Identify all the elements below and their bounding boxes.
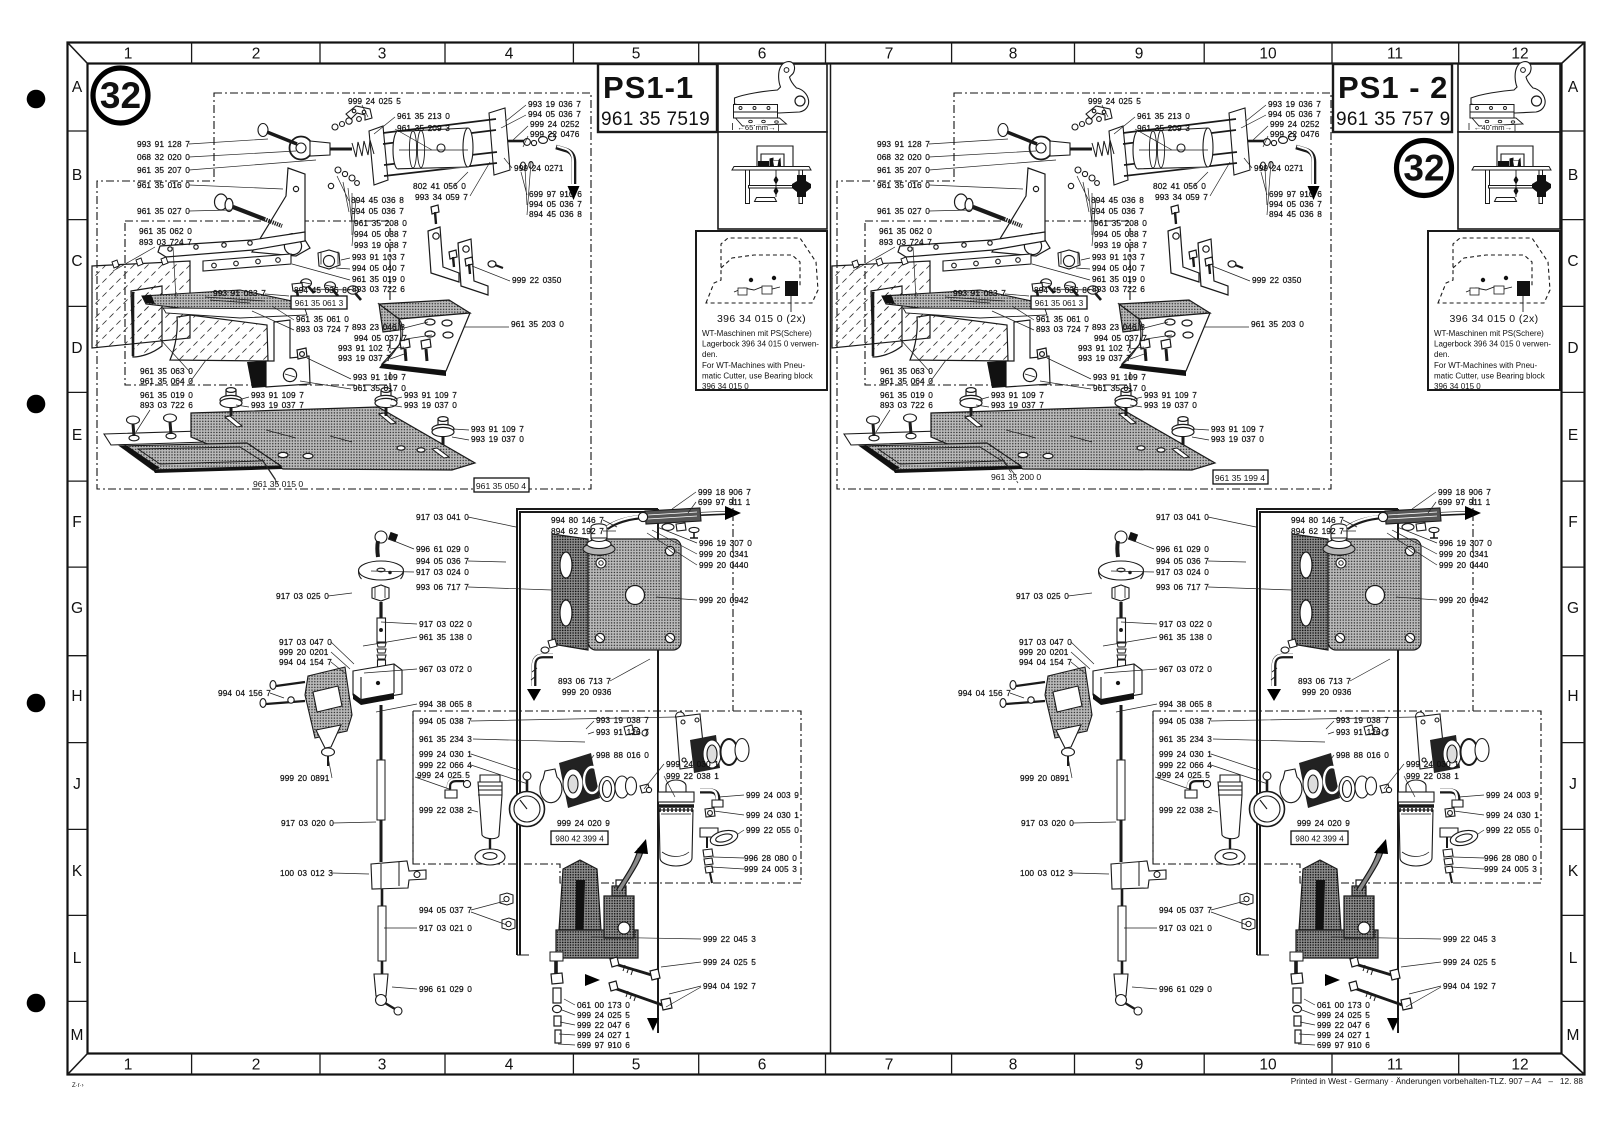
svg-text:999 20 0341: 999 20 0341 bbox=[699, 549, 749, 559]
svg-text:←40 mm→: ←40 mm→ bbox=[1474, 123, 1512, 132]
svg-text:9: 9 bbox=[1135, 1057, 1144, 1074]
svg-text:961 35 016 0: 961 35 016 0 bbox=[137, 180, 190, 190]
clamp bracket 999 24 025 5 bbox=[346, 106, 372, 120]
boxed label 980 42 399 4 bbox=[551, 831, 608, 845]
small fittings under valve bbox=[662, 524, 674, 531]
machine icon box right bbox=[1458, 132, 1560, 229]
svg-text:699 97 911 1: 699 97 911 1 bbox=[698, 497, 751, 507]
note box left (396 34 015 0) bbox=[696, 231, 827, 391]
svg-text:993 91 126 7: 993 91 126 7 bbox=[596, 727, 649, 737]
cutter bracket plate 961 35 234 3 bbox=[676, 714, 749, 773]
svg-text:699 97 910 6: 699 97 910 6 bbox=[577, 1040, 630, 1050]
svg-text:917 03 025 0: 917 03 025 0 bbox=[276, 591, 329, 601]
sheet number circle 32 right bbox=[1397, 141, 1452, 196]
svg-text:893 06 713 7: 893 06 713 7 bbox=[558, 676, 611, 686]
nut on block bbox=[297, 348, 307, 359]
boxed label 961 35 061 3 bbox=[291, 296, 347, 309]
boxed caption 961 35 050 4 bbox=[474, 478, 529, 492]
svg-text:893 23 046 8: 893 23 046 8 bbox=[352, 322, 405, 332]
svg-text:999 22 0476: 999 22 0476 bbox=[530, 129, 580, 139]
svg-text:993 91 128 7: 993 91 128 7 bbox=[137, 139, 190, 149]
svg-text:993 19 037 0: 993 19 037 0 bbox=[471, 434, 524, 444]
svg-text:993 19 038 7: 993 19 038 7 bbox=[596, 715, 649, 725]
svg-text:961 35 213 0: 961 35 213 0 bbox=[397, 111, 450, 121]
svg-text:999 24 0252: 999 24 0252 bbox=[530, 119, 580, 129]
svg-text:den.: den. bbox=[702, 350, 718, 359]
svg-text:996 61 029 0: 996 61 029 0 bbox=[416, 544, 469, 554]
svg-text:999 22 047 6: 999 22 047 6 bbox=[577, 1020, 630, 1030]
svg-text:H: H bbox=[71, 688, 82, 705]
piston rod + clevis 068 32 020 0 bbox=[318, 148, 352, 151]
mounting rail with screws 961 35 019 0 lower bbox=[104, 414, 239, 445]
svg-text:Z·r·›: Z·r·› bbox=[72, 1083, 84, 1089]
long screws right 994 04 192 7 bbox=[615, 964, 655, 976]
screw 993 91 083 7 above blade bbox=[292, 283, 303, 291]
svg-text:961 35 017 0: 961 35 017 0 bbox=[353, 383, 406, 393]
svg-text:7: 7 bbox=[885, 1057, 894, 1074]
bolts inside bracket bbox=[400, 339, 410, 349]
svg-text:893 03 724 7: 893 03 724 7 bbox=[139, 237, 192, 247]
dash-dot box around cutting mirror plates 961 35 062 0 bbox=[125, 221, 390, 385]
svg-text:994 38 065 8: 994 38 065 8 bbox=[419, 699, 472, 709]
svg-text:993 19 037 0: 993 19 037 0 bbox=[404, 400, 457, 410]
pump 999 22 045 3 bbox=[550, 839, 672, 1043]
cutter icon box 40mm bbox=[1458, 62, 1560, 132]
svg-text:994 05 036 7: 994 05 036 7 bbox=[351, 206, 404, 216]
svg-text:PS1-1: PS1-1 bbox=[603, 70, 694, 105]
svg-text:961 35 209 3: 961 35 209 3 bbox=[397, 123, 450, 133]
svg-text:999 22 045 3: 999 22 045 3 bbox=[703, 934, 756, 944]
svg-text:den.: den. bbox=[1434, 350, 1450, 359]
svg-text:699 97 910 6: 699 97 910 6 bbox=[529, 189, 582, 199]
svg-text:993 91 103 7: 993 91 103 7 bbox=[352, 252, 405, 262]
svg-text:994 05 036 7: 994 05 036 7 bbox=[416, 556, 469, 566]
stippled bearing bracket 961 35 203 0 bbox=[379, 300, 470, 376]
svg-text:993 06 717 7: 993 06 717 7 bbox=[416, 582, 469, 592]
svg-text:B: B bbox=[1568, 167, 1578, 184]
svg-text:993 91 083 7: 993 91 083 7 bbox=[213, 288, 266, 298]
svg-text:10: 10 bbox=[1259, 46, 1277, 63]
svg-text:961 35 234 3: 961 35 234 3 bbox=[419, 734, 472, 744]
svg-text:993 91 102 7: 993 91 102 7 bbox=[338, 343, 391, 353]
svg-text:999 20 0440: 999 20 0440 bbox=[699, 560, 749, 570]
svg-text:999 24 003 9: 999 24 003 9 bbox=[746, 790, 799, 800]
svg-text:11: 11 bbox=[1387, 1057, 1403, 1074]
svg-text:matic Cutter, use Bearing bloc: matic Cutter, use Bearing block bbox=[702, 371, 814, 380]
regulator ring bbox=[540, 769, 562, 803]
svg-text:961 35 208 0: 961 35 208 0 bbox=[354, 218, 407, 228]
small connector 999 24 030 1 right bbox=[640, 784, 650, 793]
svg-text:996 28 080 0: 996 28 080 0 bbox=[744, 853, 797, 863]
svg-text:100 03 012 3: 100 03 012 3 bbox=[280, 868, 333, 878]
svg-text:967 03 072 0: 967 03 072 0 bbox=[419, 664, 472, 674]
svg-text:3: 3 bbox=[378, 46, 387, 63]
svg-text:999 20 0936: 999 20 0936 bbox=[562, 687, 612, 697]
junction box 999 20 0942 bbox=[552, 534, 681, 650]
lever plate 961 35 016 0 bbox=[158, 168, 310, 257]
svg-text:999 24 020 9: 999 24 020 9 bbox=[557, 818, 610, 828]
hatched shear plate 961 35 062 0 bbox=[92, 257, 268, 361]
gauge 999 24 030 1 bbox=[510, 792, 545, 827]
svg-text:1: 1 bbox=[124, 46, 133, 63]
svg-text:893 03 722 6: 893 03 722 6 bbox=[140, 400, 193, 410]
svg-text:K: K bbox=[72, 863, 83, 880]
svg-text:917 03 047 0: 917 03 047 0 bbox=[279, 637, 332, 647]
svg-text:994 05 037 7: 994 05 037 7 bbox=[354, 333, 407, 343]
air cylinder 961 35 209 3 group bbox=[258, 106, 580, 200]
svg-text:8: 8 bbox=[1009, 1057, 1018, 1074]
title block PS1-1 bbox=[598, 64, 717, 132]
title block PS1-2 bbox=[1333, 64, 1452, 132]
svg-text:matic Cutter, use Bearing bloc: matic Cutter, use Bearing block bbox=[1434, 371, 1546, 380]
svg-text:D: D bbox=[1567, 340, 1578, 357]
hose valve body bbox=[645, 508, 701, 524]
hex nut 994 05 040 7 bbox=[318, 250, 340, 269]
long rod 917 03 020 0 bbox=[380, 705, 383, 862]
support block 961 35 017 0 bbox=[247, 320, 310, 388]
svg-text:4: 4 bbox=[505, 1057, 514, 1074]
svg-text:961 35 064 0: 961 35 064 0 bbox=[140, 376, 193, 386]
svg-text:PS1 - 2: PS1 - 2 bbox=[1338, 70, 1448, 105]
mounting panel 917 03 041 0 bbox=[517, 509, 658, 1033]
cutter icon box 65mm bbox=[718, 62, 827, 132]
svg-text:994 04 192 7: 994 04 192 7 bbox=[703, 981, 756, 991]
svg-text:994 05 037 7: 994 05 037 7 bbox=[419, 905, 472, 915]
svg-text:980 42 399 4: 980 42 399 4 bbox=[555, 834, 604, 844]
svg-text:WT-Maschinen mit PS(Schere): WT-Maschinen mit PS(Schere) bbox=[702, 329, 812, 338]
svg-text:994 04 156 7: 994 04 156 7 bbox=[218, 688, 271, 698]
air feed pipe 999 18 906 7 bbox=[583, 506, 741, 555]
centre divider between PS1-1 and PS1-2 sheets bbox=[830, 64, 832, 1054]
svg-text:961 35 207 0: 961 35 207 0 bbox=[137, 165, 190, 175]
svg-text:C: C bbox=[71, 253, 82, 270]
svg-text:961 35 061 0: 961 35 061 0 bbox=[296, 314, 349, 324]
svg-text:999 20 0942: 999 20 0942 bbox=[699, 595, 749, 605]
svg-text:068 32 020 0: 068 32 020 0 bbox=[137, 152, 190, 162]
svg-text:917 03 022 0: 917 03 022 0 bbox=[419, 619, 472, 629]
nut-washer stacks 993 91 109 7 bbox=[226, 390, 236, 399]
svg-text:L: L bbox=[1569, 950, 1578, 967]
svg-text:999 24 0271: 999 24 0271 bbox=[514, 163, 564, 173]
svg-text:894 45 036 8: 894 45 036 8 bbox=[351, 195, 404, 205]
svg-text:C: C bbox=[1567, 253, 1578, 270]
fittings right of cylinder 999 24 0252 bbox=[508, 140, 524, 143]
hatched knife plate large 961 35 064 0 bbox=[170, 315, 268, 361]
zig arm 961 35 207 0 bbox=[158, 232, 305, 257]
svg-text:For WT-Machines with Pneu-: For WT-Machines with Pneu- bbox=[1434, 361, 1537, 370]
svg-text:12: 12 bbox=[1511, 1057, 1528, 1074]
dark valve body 998 88 016 0 bbox=[559, 753, 600, 808]
arrow shaft + head bbox=[701, 513, 726, 514]
svg-text:961 35 050 4: 961 35 050 4 bbox=[476, 481, 526, 491]
screws into brackets bbox=[431, 205, 439, 214]
hose to lubricator bbox=[619, 849, 641, 890]
svg-text:917 03 021 0: 917 03 021 0 bbox=[419, 923, 472, 933]
svg-text:1: 1 bbox=[124, 1057, 133, 1074]
elbow fitting 893 06 713 7 bbox=[527, 639, 557, 701]
dash-dot connector line bbox=[732, 497, 734, 711]
svg-text:999 24 025 5: 999 24 025 5 bbox=[703, 957, 756, 967]
svg-text:12: 12 bbox=[1511, 46, 1528, 63]
svg-text:396 34 015 0 (2x): 396 34 015 0 (2x) bbox=[1449, 313, 1538, 325]
svg-text:961 35 199 4: 961 35 199 4 bbox=[1215, 473, 1265, 483]
svg-text:917 03 024 0: 917 03 024 0 bbox=[416, 567, 469, 577]
svg-text:993 19 037 7: 993 19 037 7 bbox=[251, 400, 304, 410]
svg-text:993 91 109 7: 993 91 109 7 bbox=[471, 424, 524, 434]
drain cock 999 22 055 0 bbox=[700, 828, 718, 837]
svg-text:J: J bbox=[1569, 776, 1577, 793]
piston spring bbox=[352, 140, 374, 157]
svg-text:2: 2 bbox=[252, 1057, 261, 1074]
svg-text:B: B bbox=[72, 167, 82, 184]
svg-text:M: M bbox=[1567, 1027, 1580, 1044]
svg-text:961 35 203 0: 961 35 203 0 bbox=[511, 319, 564, 329]
svg-text:K: K bbox=[1568, 863, 1579, 880]
svg-text:4: 4 bbox=[505, 46, 514, 63]
svg-text:894 62 192 7: 894 62 192 7 bbox=[551, 526, 604, 536]
svg-text:←65 mm→: ←65 mm→ bbox=[737, 123, 775, 132]
svg-text:A: A bbox=[1568, 79, 1579, 96]
connecting rod pieces bbox=[379, 602, 382, 618]
svg-text:999 24 025 5: 999 24 025 5 bbox=[417, 770, 470, 780]
svg-text:996 61 029 0: 996 61 029 0 bbox=[419, 984, 472, 994]
column ticks top/bottom bbox=[192, 43, 1459, 1075]
guide block 967 03 072 0 bbox=[353, 664, 402, 701]
screw 993 91 128 7 bbox=[258, 124, 268, 137]
svg-text:WT-Maschinen mit PS(Schere): WT-Maschinen mit PS(Schere) bbox=[1434, 329, 1544, 338]
svg-text:L: L bbox=[73, 950, 82, 967]
svg-text:F: F bbox=[1568, 514, 1577, 531]
screw bolt 961 35 027 0 bbox=[215, 194, 228, 210]
svg-text:6: 6 bbox=[758, 46, 767, 63]
svg-text:G: G bbox=[71, 600, 83, 617]
svg-text:994 80 146 7: 994 80 146 7 bbox=[551, 515, 604, 525]
svg-text:961 35 061 3: 961 35 061 3 bbox=[295, 298, 344, 308]
washer disc 917 03 024 0 bbox=[359, 561, 404, 580]
svg-text:396 34 015 0: 396 34 015 0 bbox=[702, 382, 749, 391]
svg-text:961 35 063 0: 961 35 063 0 bbox=[140, 366, 193, 376]
cylinder barrel bbox=[393, 131, 403, 169]
svg-text:961 35 200 0: 961 35 200 0 bbox=[991, 472, 1041, 482]
svg-text:893 03 724 7: 893 03 724 7 bbox=[296, 324, 349, 334]
clevis brackets 999 22 0350 bbox=[428, 205, 503, 295]
svg-text:999 24 005 3: 999 24 005 3 bbox=[744, 864, 797, 874]
svg-text:999 24 030 1: 999 24 030 1 bbox=[419, 749, 472, 759]
svg-text:H: H bbox=[1567, 688, 1578, 705]
svg-text:999 24 027 1: 999 24 027 1 bbox=[577, 1030, 630, 1040]
machine icon box left bbox=[718, 132, 827, 229]
svg-text:993 91 109 7: 993 91 109 7 bbox=[353, 372, 406, 382]
svg-text:2: 2 bbox=[252, 46, 261, 63]
svg-text:999 20 0201: 999 20 0201 bbox=[279, 647, 329, 657]
panel screws bbox=[596, 558, 606, 568]
cylinder right end plate bbox=[489, 108, 510, 175]
small dash-dot jog left bbox=[412, 711, 414, 864]
svg-text:802 41 056 0: 802 41 056 0 bbox=[413, 181, 466, 191]
svg-text:994 05 038 7: 994 05 038 7 bbox=[354, 229, 407, 239]
row ticks left/right bbox=[68, 131, 1585, 1001]
svg-text:For WT-Machines with Pneu-: For WT-Machines with Pneu- bbox=[702, 361, 805, 370]
svg-text:999 24 030 1: 999 24 030 1 bbox=[666, 759, 719, 769]
svg-text:961 35 138 0: 961 35 138 0 bbox=[419, 632, 472, 642]
svg-text:6: 6 bbox=[758, 1057, 767, 1074]
svg-text:396 34 015 0: 396 34 015 0 bbox=[1434, 382, 1481, 391]
punched bar 961 35 019 0 bbox=[203, 250, 361, 300]
lubricator bottle 999 22 038 1 bbox=[658, 780, 694, 866]
svg-text:999 22 038 2: 999 22 038 2 bbox=[419, 805, 472, 815]
sheet number circle 32 left bbox=[93, 68, 148, 123]
svg-text:999 18 906 7: 999 18 906 7 bbox=[698, 487, 751, 497]
svg-text:996 19 307 0: 996 19 307 0 bbox=[699, 538, 752, 548]
svg-text:961 35 019 0: 961 35 019 0 bbox=[140, 390, 193, 400]
three screws 893 03 722 6 bbox=[301, 279, 312, 287]
filter regulator 999 22 038 2 bbox=[445, 753, 652, 865]
flow arrow bbox=[568, 186, 580, 200]
svg-text:32: 32 bbox=[100, 75, 141, 116]
fittings 996 28 080 0 / 999 24 005 3 bbox=[703, 849, 713, 857]
valve bracket assembly 999 20 0891 bbox=[260, 667, 352, 766]
svg-text:894 45 036 8: 894 45 036 8 bbox=[529, 209, 582, 219]
base plate 961 35 050 4 bbox=[120, 388, 475, 473]
hex nuts 994 05 037 7 bbox=[500, 558, 689, 930]
svg-text:893 03 722 6: 893 03 722 6 bbox=[352, 284, 405, 294]
svg-text:32: 32 bbox=[1403, 148, 1444, 189]
small washers and nuts around rod bbox=[332, 124, 338, 130]
boxed caption 961 35 199 4 bbox=[1213, 470, 1268, 484]
svg-text:994 05 038 7: 994 05 038 7 bbox=[419, 716, 472, 726]
shim plate 961 35 015 0 bbox=[120, 443, 281, 470]
coupling rings bbox=[599, 777, 615, 802]
cylinder left end plate bbox=[369, 126, 388, 185]
svg-text:5: 5 bbox=[632, 1057, 641, 1074]
svg-text:7: 7 bbox=[885, 46, 894, 63]
note box right (396 34 015 0) bbox=[1428, 231, 1560, 391]
stud fitting right bbox=[488, 261, 496, 267]
svg-text:998 88 016 0: 998 88 016 0 bbox=[596, 750, 649, 760]
svg-text:999 24 025 5: 999 24 025 5 bbox=[577, 1010, 630, 1020]
svg-text:3: 3 bbox=[378, 1057, 387, 1074]
svg-text:Printed in West - Germany · Än: Printed in West - Germany · Änderungen v… bbox=[1291, 1076, 1584, 1086]
right sheet duplicate bbox=[832, 93, 1541, 1050]
svg-text:10: 10 bbox=[1259, 1057, 1277, 1074]
svg-text:994 05 036 7: 994 05 036 7 bbox=[528, 109, 581, 119]
svg-text:993 19 037 7: 993 19 037 7 bbox=[338, 353, 391, 363]
svg-text:999 22 0350: 999 22 0350 bbox=[512, 275, 562, 285]
stippled blade 961 35 061 3 bbox=[142, 283, 307, 318]
svg-text:994 05 036 7: 994 05 036 7 bbox=[529, 199, 582, 209]
svg-text:Lagerbock 396 34 015 0 verwen-: Lagerbock 396 34 015 0 verwen- bbox=[702, 340, 819, 349]
svg-text:917 03 041 0: 917 03 041 0 bbox=[416, 512, 469, 522]
hex 917 03 025 0 bbox=[372, 585, 389, 601]
svg-text:G: G bbox=[1567, 600, 1579, 617]
washers below elbow 994 05 036 7 bbox=[520, 162, 525, 170]
elbow 999 24 003 9 bbox=[700, 790, 739, 883]
svg-text:396 34 015 0 (2x): 396 34 015 0 (2x) bbox=[717, 313, 806, 325]
svg-text:999 22 038 1: 999 22 038 1 bbox=[666, 771, 719, 781]
connector 999 24 030 1 bbox=[705, 808, 715, 817]
svg-text:994 04 154 7: 994 04 154 7 bbox=[279, 657, 332, 667]
svg-text:999 20 0891: 999 20 0891 bbox=[280, 773, 330, 783]
svg-text:Lagerbock 396 34 015 0 verwen-: Lagerbock 396 34 015 0 verwen- bbox=[1434, 340, 1551, 349]
svg-text:961 35 757 9: 961 35 757 9 bbox=[1336, 109, 1451, 130]
svg-text:961 35 7519: 961 35 7519 bbox=[601, 109, 710, 130]
filler cap on box top bbox=[583, 543, 615, 555]
hatched knife plate small 961 35 063 0 bbox=[131, 286, 162, 357]
svg-text:961 35 015 0: 961 35 015 0 bbox=[253, 479, 303, 489]
svg-text:961 35 019 0: 961 35 019 0 bbox=[352, 274, 405, 284]
leader lines bbox=[113, 105, 744, 1045]
svg-text:993 19 036 7: 993 19 036 7 bbox=[528, 99, 581, 109]
svg-text:961 35 027 0: 961 35 027 0 bbox=[137, 206, 190, 216]
svg-text:9: 9 bbox=[1135, 46, 1144, 63]
svg-text:8: 8 bbox=[1009, 46, 1018, 63]
filter body bbox=[478, 782, 502, 839]
screws from left bbox=[270, 681, 276, 690]
svg-text:993 34 059 7: 993 34 059 7 bbox=[415, 192, 468, 202]
dash-dot boundary of upper assembly bbox=[97, 93, 591, 489]
svg-text:999 24 025 5: 999 24 025 5 bbox=[348, 96, 401, 106]
tie rods bbox=[383, 119, 497, 176]
svg-text:J: J bbox=[73, 776, 81, 793]
fittings below pump left bbox=[550, 952, 563, 961]
elbow from cap to pipe bbox=[607, 517, 642, 528]
svg-text:061 00 173 0: 061 00 173 0 bbox=[577, 1000, 630, 1010]
lower rod + end 996 61 029 0 bbox=[381, 889, 384, 974]
svg-text:F: F bbox=[72, 514, 81, 531]
black wedge arrow near pump base bbox=[585, 974, 600, 986]
svg-text:993 91 109 7: 993 91 109 7 bbox=[404, 390, 457, 400]
svg-text:999 22 055 0: 999 22 055 0 bbox=[746, 825, 799, 835]
svg-text:993 19 038 7: 993 19 038 7 bbox=[354, 240, 407, 250]
svg-text:917 03 020 0: 917 03 020 0 bbox=[281, 818, 334, 828]
svg-text:5: 5 bbox=[632, 46, 641, 63]
svg-text:961 35 062 0: 961 35 062 0 bbox=[139, 226, 192, 236]
svg-text:994 05 040 7: 994 05 040 7 bbox=[352, 263, 405, 273]
svg-text:999 24 030 1: 999 24 030 1 bbox=[746, 810, 799, 820]
svg-text:A: A bbox=[72, 79, 83, 96]
svg-text:E: E bbox=[72, 427, 82, 444]
rod head knob 996 61 029 0 bbox=[353, 531, 426, 1015]
clamp 100 03 012 3 bbox=[371, 861, 426, 889]
dash-dot box of filter group 980 42 399 4 bbox=[413, 711, 801, 883]
svg-text:E: E bbox=[1568, 427, 1578, 444]
svg-text:11: 11 bbox=[1387, 46, 1403, 63]
elbow air pipe 999 22 0476 bbox=[556, 147, 574, 184]
svg-text:993 91 109 7: 993 91 109 7 bbox=[251, 390, 304, 400]
svg-text:999 22 066 4: 999 22 066 4 bbox=[419, 760, 472, 770]
svg-text:M: M bbox=[71, 1027, 84, 1044]
punch holes bbox=[27, 90, 46, 109]
svg-text:D: D bbox=[71, 340, 82, 357]
